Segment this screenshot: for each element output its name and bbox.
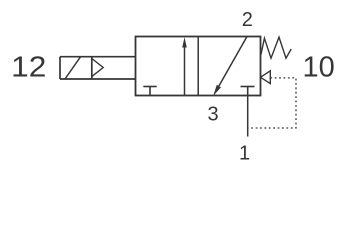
solenoid box K1 xyxy=(60,57,136,79)
pilot control dotted line xyxy=(249,78,297,128)
svg-text:3: 3 xyxy=(207,104,218,126)
return spring xyxy=(261,37,291,58)
svg-text:10: 10 xyxy=(302,52,334,84)
port 1 connection line xyxy=(247,96,249,137)
right position flow arrow (2 to 3 diagonal) xyxy=(213,37,247,97)
left position blocked port T xyxy=(143,87,156,96)
valve position divider xyxy=(197,37,199,96)
pilot amplifier triangle (points right) xyxy=(92,59,103,77)
pilot triangle 10 (points left) xyxy=(261,71,271,84)
valve body outline xyxy=(136,37,261,96)
right position blocked port T xyxy=(241,87,255,96)
svg-text:12: 12 xyxy=(11,52,46,84)
svg-text:1: 1 xyxy=(239,143,250,165)
solenoid coil diagonal xyxy=(65,57,81,79)
svg-text:2: 2 xyxy=(242,9,253,31)
left position flow arrow (up) xyxy=(182,37,187,95)
